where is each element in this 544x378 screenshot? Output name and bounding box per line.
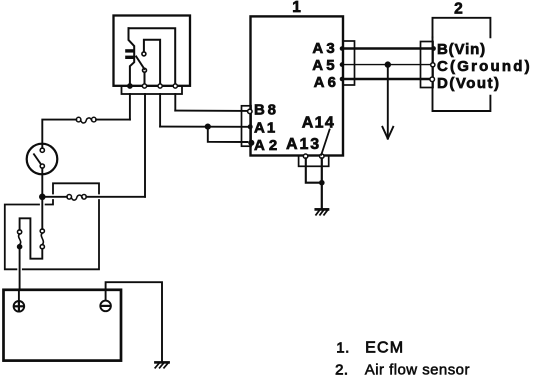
svg-text:A2: A2	[254, 137, 281, 154]
svg-text:B(Vin): B(Vin)	[437, 41, 486, 58]
svg-text:B8: B8	[254, 102, 279, 119]
svg-text:1: 1	[292, 0, 301, 16]
svg-text:1.: 1.	[336, 339, 350, 356]
svg-text:A5: A5	[312, 57, 338, 74]
svg-text:2.: 2.	[335, 361, 349, 378]
svg-text:A1: A1	[254, 119, 277, 136]
svg-text:C(Ground): C(Ground)	[437, 58, 532, 75]
svg-text:Air flow sensor: Air flow sensor	[365, 361, 470, 378]
svg-text:A14: A14	[302, 115, 335, 132]
svg-text:ECM: ECM	[365, 340, 404, 357]
svg-text:2: 2	[454, 1, 463, 18]
svg-text:A3: A3	[312, 40, 338, 57]
svg-text:A13: A13	[286, 136, 321, 153]
svg-text:A6: A6	[314, 74, 340, 91]
svg-text:D(Vout): D(Vout)	[437, 75, 501, 92]
